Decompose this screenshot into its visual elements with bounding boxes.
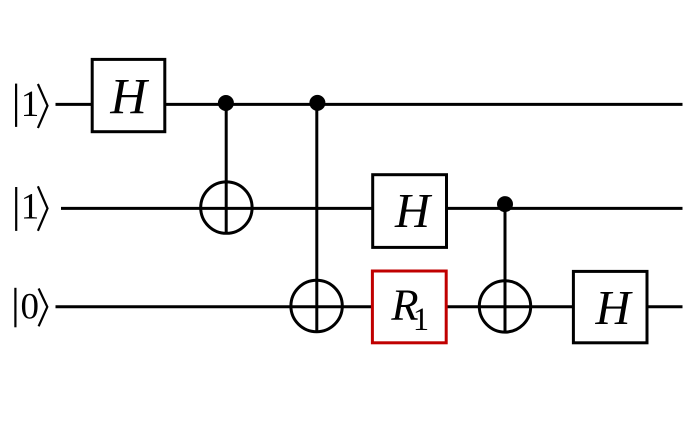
wire control line CNOT3 bbox=[504, 204, 507, 333]
control dot q0 (CNOT2) bbox=[309, 95, 325, 111]
ket |1> label q1 bar bbox=[15, 187, 17, 231]
ket |0> label q2 rangle bbox=[39, 289, 48, 327]
CNOT target on q2 (from q1) bbox=[479, 281, 530, 332]
svg-text:0: 0 bbox=[21, 286, 40, 327]
svg-text:1: 1 bbox=[21, 84, 40, 125]
control dot q0 (CNOT1) bbox=[218, 95, 234, 111]
control dot q1 (CNOT3) bbox=[497, 196, 513, 212]
wire q2 bbox=[56, 305, 683, 308]
ket |1> label q0 bar bbox=[15, 84, 17, 127]
gate R1 q2 box (red) bbox=[372, 271, 446, 343]
wire q1 bbox=[61, 207, 683, 210]
svg-text:1: 1 bbox=[21, 187, 40, 228]
CNOT target on q2 (from q0) bbox=[291, 280, 342, 331]
gate H q1 box bbox=[373, 175, 447, 248]
wire control line CNOT2 bbox=[315, 103, 318, 333]
ket |1> label q1 rangle bbox=[38, 186, 48, 231]
svg-text:1: 1 bbox=[413, 302, 429, 338]
ket |0> label q2 bar bbox=[14, 288, 16, 328]
gate H q2 box bbox=[573, 271, 647, 342]
ket |1> label q0 rangle bbox=[38, 84, 48, 128]
CNOT target on q1 bbox=[201, 182, 252, 233]
svg-text:H: H bbox=[394, 185, 433, 238]
wire control line CNOT1 bbox=[225, 103, 228, 235]
wire q0 bbox=[56, 103, 683, 106]
gate H q0 box bbox=[92, 59, 165, 131]
svg-text:H: H bbox=[109, 69, 149, 125]
svg-text:H: H bbox=[594, 282, 633, 335]
